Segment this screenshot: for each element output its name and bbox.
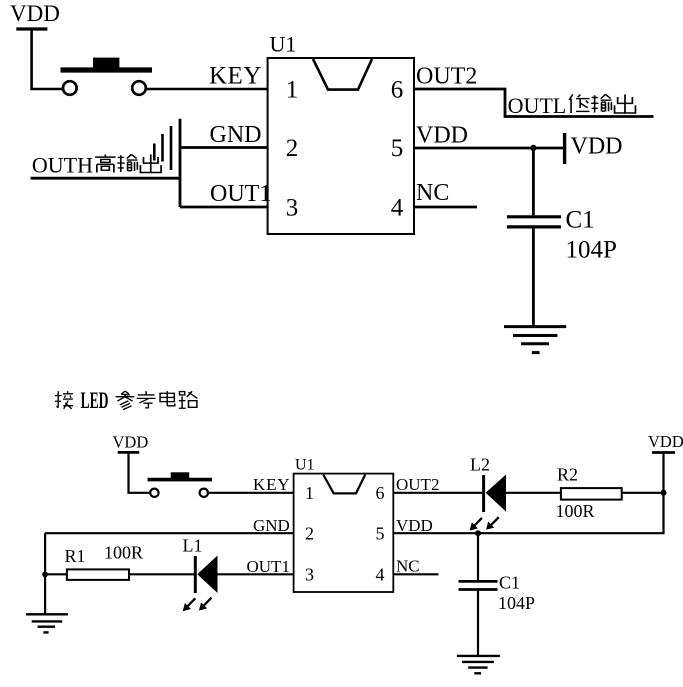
svg-text:R1: R1 <box>65 546 86 566</box>
svg-text:3: 3 <box>305 565 314 585</box>
svg-text:OUT2: OUT2 <box>416 64 477 90</box>
wire to R1 <box>45 573 67 575</box>
svg-text:VDD: VDD <box>396 516 433 535</box>
svg-text:104P: 104P <box>498 593 535 613</box>
svg-text:6: 6 <box>391 77 404 104</box>
svg-text:U1: U1 <box>270 32 297 57</box>
IC U1 (bottom) <box>294 457 394 593</box>
svg-text:VDD: VDD <box>648 432 683 451</box>
ground (bottom right) <box>457 656 500 673</box>
LED L2 <box>470 455 506 531</box>
svg-text:100R: 100R <box>104 543 143 563</box>
svg-text:KEY: KEY <box>209 63 262 90</box>
node vertical wire <box>179 119 182 207</box>
svg-text:3: 3 <box>286 195 299 222</box>
svg-text:VDD: VDD <box>10 1 60 26</box>
wire NC stub <box>414 206 477 209</box>
svg-text:104P: 104P <box>566 237 617 264</box>
wire left vertical <box>44 533 46 614</box>
svg-text:L2: L2 <box>470 455 490 475</box>
junction <box>661 490 667 496</box>
wire GND pin2 <box>45 532 294 534</box>
wire L2 to R2 <box>506 492 561 494</box>
LED L1 <box>183 536 218 612</box>
wire R2 to VDD node <box>622 492 664 494</box>
svg-text:C1: C1 <box>499 573 520 593</box>
capacitor C1 <box>507 217 561 227</box>
svg-text:U1: U1 <box>295 457 315 474</box>
wire L1 to pin3 <box>218 573 294 575</box>
svg-text:VDD: VDD <box>416 123 468 149</box>
svg-text:OUTH: OUTH <box>32 153 93 178</box>
switch S2 (tact push button) <box>148 472 212 497</box>
svg-text:1: 1 <box>305 483 314 503</box>
resistor R2 <box>561 488 622 500</box>
wire junction to capacitor <box>532 148 535 215</box>
svg-text:L1: L1 <box>183 536 203 556</box>
switch S1 (tact push button) <box>61 58 153 95</box>
power VDD (bar symbol) <box>565 133 623 164</box>
resistor R1 <box>67 569 129 580</box>
junction on pin5 net <box>475 530 481 536</box>
svg-text:NC: NC <box>396 557 420 576</box>
svg-text:4: 4 <box>376 565 385 585</box>
svg-text:OUT1: OUT1 <box>210 181 271 207</box>
svg-text:5: 5 <box>376 523 385 543</box>
wire capacitor to ground <box>477 591 479 656</box>
wire VDD stem down to pin5 net <box>393 453 663 534</box>
svg-text:1: 1 <box>286 77 299 104</box>
label OUTH (Chinese: high output) <box>32 153 161 178</box>
IC U1 (top) <box>268 32 414 235</box>
svg-text:GND: GND <box>210 122 262 148</box>
wire VDD stem to switch <box>129 452 150 492</box>
wire pin6 to L2 <box>393 492 482 494</box>
wire R1 to L1 <box>129 573 194 575</box>
svg-text:R2: R2 <box>557 465 578 485</box>
junction <box>530 145 536 151</box>
power VDD (bottom left) <box>113 433 149 453</box>
ground (sideways, GND net) <box>154 126 171 170</box>
svg-text:100R: 100R <box>556 501 595 521</box>
svg-text:6: 6 <box>376 483 385 503</box>
wire OUTH output <box>31 177 181 180</box>
wire VDD stem to switch <box>32 29 62 89</box>
ground <box>504 327 566 353</box>
wire VDD pin5 <box>414 147 563 150</box>
svg-text:OUTL: OUTL <box>508 93 567 118</box>
label OUTL (Chinese: low output) <box>508 93 636 118</box>
svg-text:KEY: KEY <box>253 475 290 494</box>
ground (bottom left) <box>26 614 68 632</box>
svg-text:NC: NC <box>416 180 449 206</box>
svg-text:C1: C1 <box>566 207 595 234</box>
wire OUT1 pin3 <box>180 206 268 209</box>
svg-text:OUT2: OUT2 <box>396 475 439 494</box>
wire junction to capacitor <box>477 533 479 580</box>
power VDD (bottom right) <box>648 432 683 453</box>
svg-text:LED: LED <box>81 388 109 413</box>
svg-text:OUT1: OUT1 <box>247 557 290 576</box>
svg-text:VDD: VDD <box>113 433 149 452</box>
svg-text:5: 5 <box>391 135 404 162</box>
junction <box>42 571 48 577</box>
svg-text:4: 4 <box>391 195 404 222</box>
power VDD (top left) <box>10 1 60 29</box>
wire capacitor to ground <box>532 228 535 325</box>
svg-text:VDD: VDD <box>571 134 623 160</box>
wire GND pin2 <box>180 146 268 149</box>
wire switch to pin 1 <box>147 88 269 91</box>
wire switch to pin 1 <box>208 492 293 494</box>
svg-text:2: 2 <box>286 135 299 162</box>
capacitor C1 <box>459 581 498 589</box>
svg-text:2: 2 <box>305 523 314 543</box>
wire NC stub <box>393 573 438 575</box>
wire OUT2 with elbow <box>414 89 654 117</box>
title: connect-LED reference circuit <box>55 388 197 413</box>
